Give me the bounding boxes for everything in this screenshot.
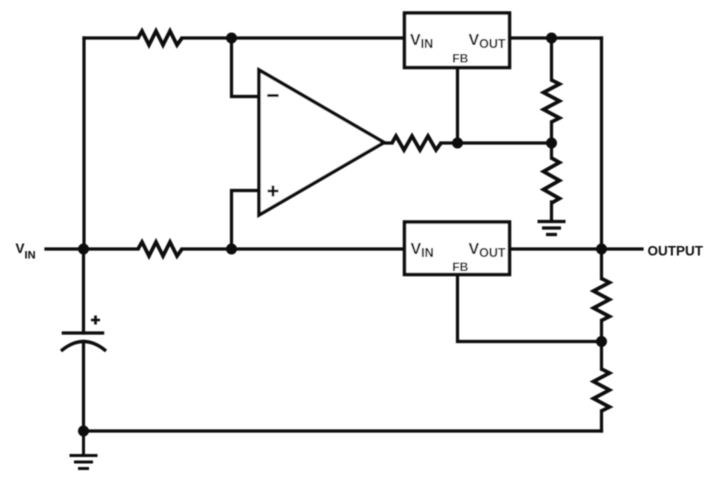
svg-text:FB: FB [452,52,468,66]
svg-text:OUTPUT: OUTPUT [648,244,704,259]
svg-text:FB: FB [452,260,468,274]
